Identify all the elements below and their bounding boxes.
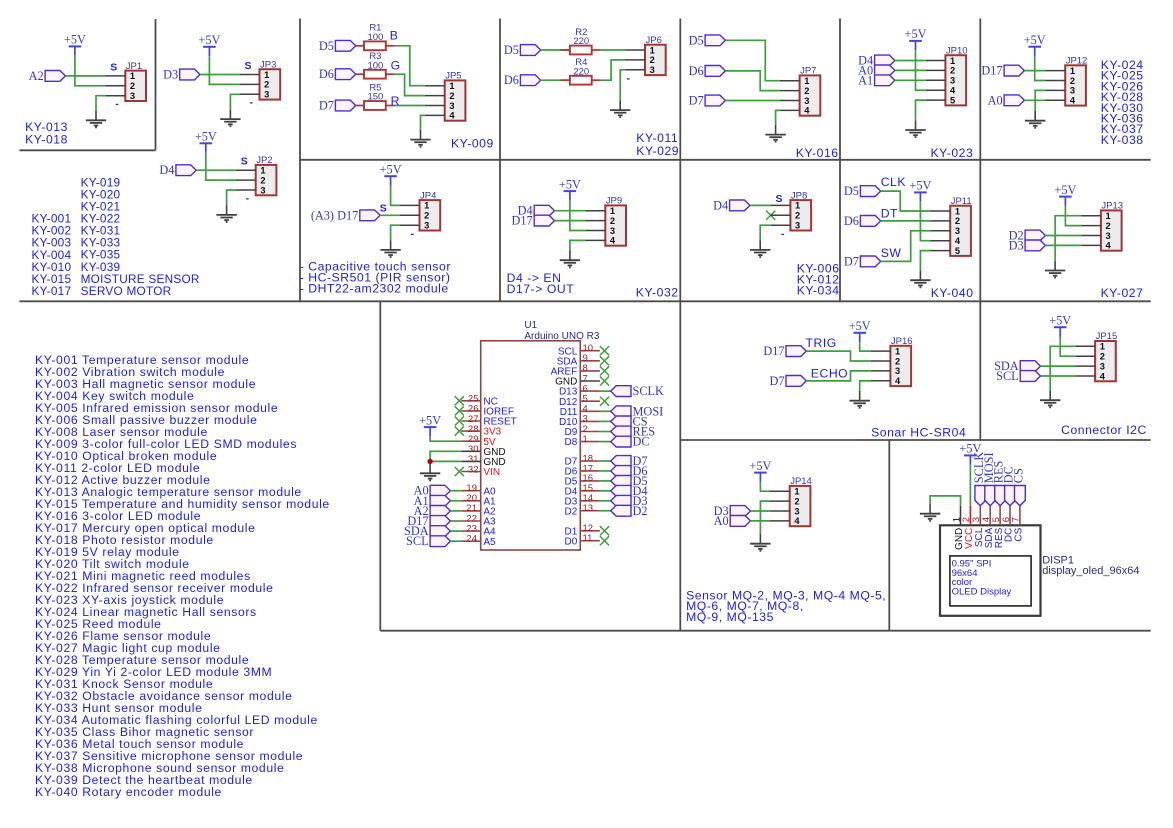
svg-text:+5V: +5V	[1054, 183, 1076, 197]
wire A2 to JP1 pin1	[65, 75, 105, 77]
svg-text:Arduino UNO R3: Arduino UNO R3	[524, 331, 599, 342]
wire +5V to JP14 pin1	[760, 482, 770, 491]
svg-text:KY-034: KY-034	[797, 284, 840, 298]
net label D5 (KY-040)	[844, 184, 881, 198]
wire D7 to R5	[356, 105, 364, 107]
ground (KY-040)	[910, 271, 930, 288]
net label A2	[29, 69, 66, 83]
wire R4 to JP6 pin2	[592, 79, 601, 81]
wire +5V to U1 pin29	[430, 436, 461, 441]
net label CS	[611, 414, 648, 428]
svg-text:2: 2	[895, 356, 900, 366]
wire +5V to OLED VCC	[969, 465, 971, 506]
frame v x840	[839, 19, 841, 302]
wire R2 to JP6 pin1	[592, 49, 601, 51]
svg-text:-: -	[410, 228, 414, 240]
svg-text:+5V: +5V	[64, 33, 86, 47]
svg-text:2: 2	[260, 175, 265, 185]
power +5V (I2C)	[1049, 313, 1071, 336]
svg-text:S: S	[380, 202, 387, 214]
svg-text:JP14: JP14	[790, 476, 812, 487]
net label A0 (U1 analog)	[414, 484, 451, 498]
wire +5V to JP3 pin2	[209, 56, 239, 84]
connector JP3	[240, 59, 280, 99]
wire D7 to JP7 pin3	[725, 100, 780, 102]
resistor R2	[570, 27, 592, 55]
svg-text:D17: D17	[763, 344, 784, 358]
svg-text:DC: DC	[633, 435, 650, 449]
wire JP12 pin3 to ground	[1035, 90, 1045, 111]
connector JP6	[625, 35, 665, 75]
wire U1 pin 17 to flag D6	[600, 470, 611, 472]
wire +5V to JP15 pin2	[1060, 337, 1075, 357]
svg-text:2: 2	[130, 81, 135, 91]
wire +5V to JP1 pin2	[75, 56, 106, 86]
svg-text:100: 100	[367, 32, 383, 43]
net label D17 (sonar)	[763, 344, 806, 358]
wire R5 to JP5 pin3	[386, 105, 395, 107]
svg-text:OLED Display: OLED Display	[952, 587, 1012, 598]
svg-text:+5V: +5V	[195, 130, 217, 144]
wire A1 to JP10 pin3	[895, 79, 926, 81]
svg-text:SCL: SCL	[406, 534, 429, 548]
wire JP4 pin3 to ground	[391, 225, 400, 240]
ground (JP3 block)	[220, 109, 240, 126]
frame box KY-013 right	[155, 19, 157, 150]
connector JP8	[771, 190, 811, 230]
svg-text:+5V: +5V	[559, 177, 581, 191]
wire A0 to JP10 pin2	[895, 69, 926, 71]
svg-text:ECHO: ECHO	[811, 366, 848, 380]
svg-text:+5V: +5V	[380, 162, 402, 176]
net label D6 (right)	[611, 464, 648, 478]
net label A2 (U1 analog)	[414, 504, 451, 518]
wire D6 to JP7 pin2	[725, 71, 780, 91]
Arduino U1 symbol body	[481, 341, 581, 550]
svg-text:SCL: SCL	[996, 369, 1019, 383]
svg-text:D4: D4	[159, 163, 174, 177]
svg-text:(A3) D17: (A3) D17	[311, 208, 358, 222]
connector JP9	[586, 196, 626, 246]
svg-text:1: 1	[1106, 211, 1111, 221]
svg-text:2: 2	[610, 216, 615, 226]
ground (sonar)	[850, 391, 870, 408]
svg-text:3: 3	[260, 185, 265, 195]
wire JP2 pin3 to ground	[227, 190, 236, 205]
svg-text:2: 2	[950, 66, 955, 76]
ground (JP4 block)	[380, 240, 400, 257]
wire +5V to JP4 pin1	[391, 186, 400, 206]
svg-text:D17-> OUT: D17-> OUT	[507, 282, 575, 296]
resistor R3	[364, 51, 386, 79]
net label DC (OLED)	[1002, 466, 1016, 506]
svg-text:5: 5	[950, 95, 955, 105]
svg-text:13: 13	[583, 503, 594, 514]
wire SCL to JP15 pin4	[1041, 375, 1076, 377]
connector JP7	[780, 66, 820, 116]
svg-text:KY-018: KY-018	[25, 133, 68, 147]
svg-text:KY-038: KY-038	[1101, 133, 1144, 147]
svg-text:100: 100	[367, 60, 383, 71]
frame box KY-013 bottom	[19, 149, 155, 151]
net label D2 (right)	[611, 504, 648, 518]
svg-text:3: 3	[1106, 231, 1111, 241]
wire U1 pin30 to ground net	[430, 451, 461, 461]
wire D6/DT to JP11 pin2	[881, 220, 931, 222]
wire JP5 pin4 to ground	[421, 115, 426, 129]
wire U1 pin 18 to flag D7	[600, 460, 611, 462]
connector JP4	[400, 190, 440, 230]
svg-text:3: 3	[1070, 86, 1075, 96]
wire +5V to JP13 pin2	[1065, 206, 1081, 226]
net label D3 (MQ)	[714, 504, 751, 518]
resistor R1	[364, 23, 386, 51]
net label DC	[611, 435, 650, 449]
net label D5 (KY-009)	[319, 39, 356, 53]
junction (U1 GND)	[427, 459, 432, 464]
wire U1 pin 15 to flag D4	[600, 490, 611, 492]
svg-text:7: 7	[1011, 517, 1022, 522]
svg-text:CS: CS	[1014, 527, 1025, 541]
svg-text:+5V: +5V	[1049, 313, 1071, 327]
connector JP12	[1046, 56, 1088, 106]
svg-text:3: 3	[795, 221, 800, 231]
svg-text:+5V: +5V	[1024, 33, 1046, 47]
svg-text:1: 1	[1070, 66, 1075, 76]
svg-text:D5: D5	[319, 39, 334, 53]
wire D5 to R2	[541, 49, 570, 51]
svg-text:1: 1	[950, 56, 955, 66]
net label MOSI	[611, 404, 664, 418]
OLED DISP1 symbol body	[940, 525, 1041, 616]
wire A2 to U1 pin 21	[450, 510, 461, 512]
power +5V symbol (OLED)	[959, 442, 981, 465]
power +5V (sonar)	[849, 319, 871, 342]
connector JP2	[236, 155, 276, 195]
svg-text:+5V: +5V	[909, 179, 931, 193]
svg-text:24: 24	[466, 534, 477, 545]
net label SDA (I2C)	[994, 359, 1040, 373]
wire D4 to JP2 pin1	[196, 169, 236, 171]
net label D5 (KY-011)	[504, 43, 541, 57]
svg-text:4: 4	[955, 236, 961, 246]
net label D7 (sonar)	[769, 374, 806, 388]
wire R1 to JP5 pin1	[386, 45, 395, 47]
svg-text:2: 2	[424, 211, 429, 221]
svg-text:1: 1	[895, 346, 900, 356]
svg-text:D17: D17	[981, 64, 1002, 78]
svg-text:- DHT22-am2302 module: - DHT22-am2302 module	[300, 282, 449, 296]
wire +5V to JP12 pin2	[1035, 56, 1046, 81]
net label D17 (KY-032)	[512, 214, 555, 228]
svg-text:1: 1	[804, 76, 809, 86]
svg-text:JP8: JP8	[791, 190, 807, 201]
power +5V (JP3 block)	[198, 33, 220, 56]
wire D17 to JP9 pin2	[555, 220, 586, 222]
frame bottom	[380, 630, 1150, 632]
svg-text:4: 4	[610, 236, 616, 246]
wire +5V to JP10 pin4	[916, 50, 926, 90]
svg-text:-: -	[781, 228, 785, 240]
wire D17 to JP12 pin1	[1024, 70, 1045, 72]
svg-text:A1: A1	[858, 73, 873, 87]
svg-text:3: 3	[950, 76, 955, 86]
svg-text:KY-032: KY-032	[636, 286, 679, 300]
net label D17 (JP12)	[981, 64, 1024, 78]
connector JP1	[106, 61, 146, 101]
svg-text:D6: D6	[689, 64, 704, 78]
net label D6 (KY-016)	[689, 64, 726, 78]
svg-text:4: 4	[1106, 241, 1112, 251]
svg-text:3: 3	[1100, 361, 1105, 371]
wire D5 to JP7 pin1	[725, 40, 780, 80]
wire U1 D9 to flag RES	[600, 431, 611, 433]
svg-text:JP5: JP5	[445, 71, 461, 82]
svg-text:KY-029: KY-029	[636, 144, 679, 158]
ground (KY-023)	[905, 120, 925, 137]
wire D6 to R3	[356, 73, 364, 75]
power +5V (KY-027)	[1054, 183, 1076, 206]
svg-text:4: 4	[1070, 96, 1076, 106]
wire A0 to JP12 pin4	[1024, 99, 1045, 101]
wire U1 pin 14 to flag D3	[600, 500, 611, 502]
power +5V (JP1 block)	[64, 33, 86, 56]
wire JP10 pin5 to ground	[916, 100, 926, 120]
svg-text:A0: A0	[714, 514, 729, 528]
wire JP8 pin3 to ground	[760, 225, 771, 240]
no-connect X on JP8 pin2	[766, 211, 775, 220]
ground (KY-006)	[750, 240, 770, 257]
svg-text:4: 4	[1100, 371, 1106, 381]
net label D3 (KY-027)	[1009, 238, 1046, 252]
wire D5/CLK to JP11 pin1	[881, 191, 931, 211]
frame v x300	[299, 19, 301, 302]
wire D17 to JP4 pin2	[380, 214, 400, 216]
svg-text:32: 32	[468, 464, 479, 475]
net label SCL (I2C)	[996, 369, 1040, 383]
U1 left pins 19-24 (A0-A5)	[461, 483, 496, 548]
ground (I2C)	[1040, 391, 1060, 408]
wire U1 D10 to flag CS	[600, 420, 611, 422]
wire JP11 pin5 to ground	[920, 251, 930, 271]
frame row1/row2 divider right	[300, 159, 1151, 161]
connector JP15	[1075, 331, 1117, 381]
svg-text:2: 2	[1100, 352, 1105, 362]
connector JP5	[425, 71, 465, 121]
power +5V (JP4 block)	[380, 162, 402, 185]
ground (KY-011)	[610, 100, 630, 117]
svg-text:-: -	[115, 98, 119, 110]
svg-text:D6: D6	[844, 214, 859, 228]
svg-text:3: 3	[264, 90, 269, 100]
wire U1 D8 to flag DC	[600, 441, 611, 443]
U1 right pins 13-18 (D2-D7)	[565, 453, 600, 517]
svg-text:JP4: JP4	[420, 190, 436, 201]
net label A0 (MQ)	[714, 514, 751, 528]
svg-text:JP3: JP3	[260, 59, 276, 70]
svg-text:R: R	[391, 94, 400, 108]
net label SCLK	[611, 384, 664, 398]
ground (KY-009)	[410, 130, 430, 147]
svg-text:220: 220	[573, 36, 589, 47]
wire JP6 pin3 to ground	[620, 70, 625, 101]
svg-text:JP11: JP11	[951, 196, 972, 207]
svg-text:JP15: JP15	[1096, 331, 1118, 342]
net label A1 (KY-023)	[858, 73, 895, 87]
wire OLED GND pin to ground	[930, 496, 960, 506]
net label D5 (KY-016)	[689, 33, 726, 47]
wire U1 D13 to flag SCLK	[600, 390, 611, 392]
svg-text:A5: A5	[483, 537, 496, 548]
svg-text:+5V: +5V	[905, 27, 927, 41]
svg-text:VIN: VIN	[483, 467, 500, 478]
net label D7 (right)	[611, 454, 648, 468]
svg-text:1: 1	[650, 45, 655, 55]
connector JP14	[770, 476, 812, 526]
wire D3 to JP3 pin1	[200, 74, 240, 76]
svg-text:A2: A2	[29, 69, 44, 83]
net label D4 (KY-006)	[713, 198, 750, 212]
svg-text:JP1: JP1	[126, 61, 142, 72]
frame v arduino left	[379, 301, 381, 630]
svg-text:display_oled_96x64: display_oled_96x64	[1042, 565, 1139, 577]
svg-text:2: 2	[650, 55, 655, 65]
svg-text:SERVO MOTOR: SERVO MOTOR	[81, 284, 172, 298]
power +5V (MQ)	[749, 459, 771, 482]
connector JP11	[931, 196, 972, 256]
svg-text:3: 3	[804, 96, 809, 106]
net label RES	[611, 425, 656, 439]
svg-text:4: 4	[449, 111, 455, 121]
net label D6 (KY-011)	[504, 73, 541, 87]
net label RES (OLED)	[992, 460, 1006, 505]
svg-text:1: 1	[795, 201, 800, 211]
svg-text:2: 2	[804, 86, 809, 96]
svg-text:11: 11	[583, 533, 593, 544]
power +5V (KY-032)	[559, 177, 581, 200]
svg-text:3: 3	[895, 366, 900, 376]
frame v x680	[679, 19, 681, 631]
net label D6 (KY-040)	[844, 214, 881, 228]
svg-text:3: 3	[424, 221, 429, 231]
svg-text:Sonar HC-SR04: Sonar HC-SR04	[871, 426, 966, 440]
resistor R4	[570, 57, 592, 85]
net label D7 (KY-040)	[844, 254, 881, 268]
svg-text:150: 150	[367, 92, 383, 103]
svg-text:D2: D2	[565, 506, 578, 517]
svg-text:MQ-9, MQ-135: MQ-9, MQ-135	[686, 610, 774, 624]
net label D17 (U1 analog)	[407, 514, 450, 528]
wire D3 to JP14 pin3	[751, 510, 771, 512]
svg-text:4: 4	[895, 376, 901, 386]
svg-text:1: 1	[955, 206, 960, 216]
wire D17/TRIG to JP16 pin2	[806, 351, 870, 361]
svg-text:SW: SW	[881, 246, 902, 260]
svg-text:KY-017: KY-017	[32, 284, 72, 298]
wire U1 D11 to flag MOSI	[600, 410, 611, 412]
ground (JP1 block)	[86, 111, 106, 128]
wire JP15 pin1 to ground	[1050, 346, 1075, 390]
svg-text:4: 4	[804, 106, 810, 116]
svg-text:1: 1	[794, 487, 799, 497]
svg-text:4: 4	[950, 86, 956, 96]
svg-text:1: 1	[583, 434, 588, 445]
svg-text:SCLK: SCLK	[633, 384, 665, 398]
wire +5V to JP16 pin1	[860, 342, 871, 351]
svg-text:D3: D3	[163, 68, 178, 82]
net label SCL (U1 analog)	[406, 534, 450, 548]
svg-text:1: 1	[264, 70, 269, 80]
power +5V symbol (U1)	[419, 413, 441, 436]
svg-text:G: G	[391, 59, 401, 73]
power +5V (KY-040)	[909, 179, 931, 202]
wire D5 to R1	[356, 45, 364, 47]
wire A1 to U1 pin 20	[450, 500, 461, 502]
text list KY-001..KY-040 descriptions	[35, 353, 330, 799]
ground (MQ)	[750, 534, 770, 551]
ground (JP2 block)	[216, 205, 236, 222]
svg-text:4: 4	[794, 516, 800, 526]
svg-text:JP10: JP10	[946, 45, 968, 56]
svg-text:D5: D5	[689, 33, 704, 47]
svg-text:3: 3	[955, 226, 960, 236]
svg-text:D4: D4	[713, 198, 728, 212]
ground (KY-027)	[1045, 261, 1065, 278]
net label D4 (right)	[611, 484, 648, 498]
svg-text:3: 3	[130, 91, 135, 101]
wire D3 to JP13 pin4	[1045, 244, 1081, 246]
wire D4 to JP9 pin1	[555, 210, 586, 212]
frame v x500	[499, 19, 501, 302]
net label (A3) D17 (JP4)	[311, 208, 380, 222]
net label D6 (KY-009)	[319, 67, 356, 81]
svg-text:D6: D6	[504, 73, 519, 87]
svg-text:2: 2	[449, 91, 454, 101]
frame sonar bottom	[680, 439, 1150, 441]
svg-text:5: 5	[955, 246, 960, 256]
svg-text:D8: D8	[565, 437, 578, 448]
wire SCL to U1 pin 24	[450, 540, 461, 542]
wire JP3 pin3 to ground	[230, 94, 239, 109]
svg-text:220: 220	[573, 66, 589, 77]
svg-text:Connector I2C: Connector I2C	[1061, 423, 1147, 437]
svg-text:3: 3	[610, 226, 615, 236]
wire JP1 pin3 to ground	[96, 96, 106, 111]
svg-text:D7: D7	[689, 94, 704, 108]
wire D7/ECHO to JP16 pin3	[806, 371, 870, 381]
svg-text:KY-040: KY-040	[931, 286, 974, 300]
svg-text:2: 2	[1106, 221, 1111, 231]
svg-text:+5V: +5V	[198, 33, 220, 47]
net label A0 (JP12)	[988, 93, 1025, 107]
svg-text:D2: D2	[633, 504, 648, 518]
wire R3 to JP5 pin2	[386, 73, 395, 75]
svg-text:JP6: JP6	[646, 35, 662, 46]
svg-text:2: 2	[794, 496, 799, 506]
svg-text:1: 1	[424, 201, 429, 211]
power +5V (KY-023)	[905, 27, 927, 50]
svg-text:2: 2	[955, 216, 960, 226]
svg-text:-: -	[249, 97, 253, 109]
svg-text:D7: D7	[844, 254, 859, 268]
svg-text:1: 1	[449, 81, 454, 91]
wire +5V to JP9 pin3	[570, 200, 586, 230]
wire A0 to U1 pin 19	[450, 490, 461, 492]
net label D7 (KY-009)	[319, 99, 356, 113]
svg-text:S: S	[241, 156, 248, 168]
net label D5 (right)	[611, 474, 648, 488]
svg-text:+5V: +5V	[749, 459, 771, 473]
